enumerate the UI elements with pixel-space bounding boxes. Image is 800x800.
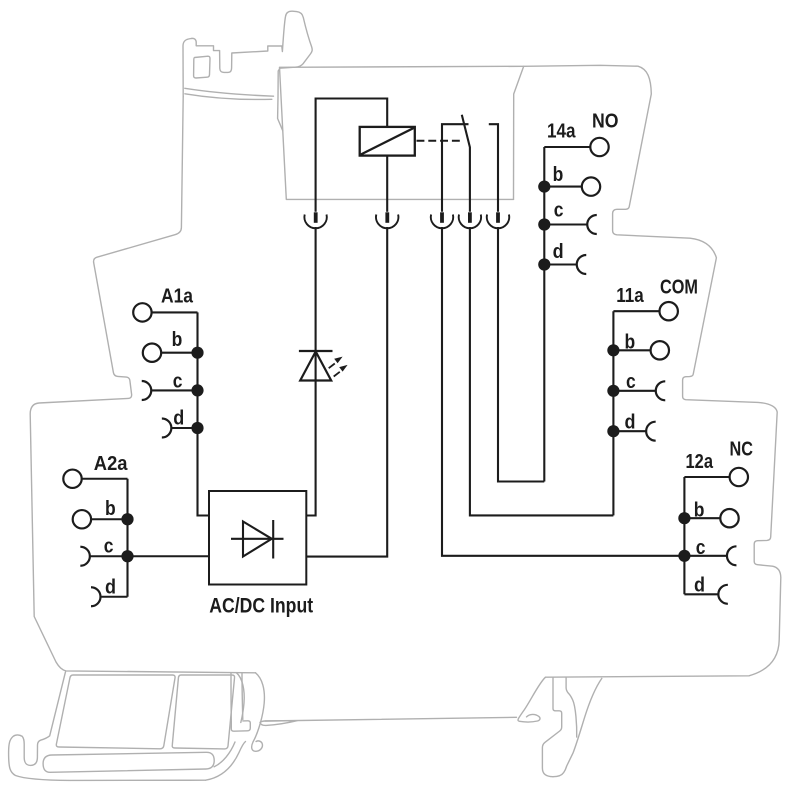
plug contact 3 <box>431 212 453 228</box>
foot bottom slot <box>43 752 214 772</box>
contact NO fixed stub <box>489 124 498 212</box>
svg-text:d: d <box>625 410 636 433</box>
contact NC fixed wire to plug 3 <box>442 124 469 212</box>
wire A2a c to rectifier <box>90 555 209 557</box>
svg-text:b: b <box>105 497 116 520</box>
plug contact 5 <box>487 212 509 228</box>
terminal 11a bus <box>612 311 614 515</box>
svg-text:c: c <box>626 370 636 393</box>
wire plug3 (NC) to 12a bus <box>442 227 684 556</box>
terminal 11a stub a <box>613 310 659 312</box>
terminal A2a bus <box>126 479 128 597</box>
rectifier diode line <box>231 538 284 540</box>
foot panel 1 <box>56 675 175 749</box>
junction 11a b <box>607 344 619 356</box>
terminal 14a stub d <box>544 263 576 265</box>
svg-text:d: d <box>105 576 116 599</box>
rectifier diode cathode bar <box>272 520 274 559</box>
svg-text:NC: NC <box>730 438 754 461</box>
foot right band inner <box>237 673 245 723</box>
foot panel 2 <box>172 675 234 749</box>
terminal A1a circle a <box>133 303 151 321</box>
terminal 12a circle a (NC) <box>730 468 748 486</box>
DIN clip spring arcs <box>185 88 274 99</box>
housing top box <box>280 66 524 199</box>
terminal 12a stub a <box>684 476 729 478</box>
terminal 14a stub c <box>544 223 587 225</box>
terminal 11a circle b <box>651 341 669 359</box>
svg-text:d: d <box>694 573 705 596</box>
terminal A1a stub d <box>171 427 198 429</box>
terminal 14a circle b <box>582 177 600 195</box>
svg-text:b: b <box>694 498 705 521</box>
svg-text:b: b <box>172 328 183 351</box>
terminal 14a bus <box>543 147 545 482</box>
dashed actuation link <box>417 140 464 142</box>
contact blade (movable) <box>462 115 470 212</box>
svg-text:AC/DC Input: AC/DC Input <box>209 594 313 617</box>
svg-text:A2a: A2a <box>94 452 128 475</box>
junction 11a c <box>607 385 619 397</box>
wire plug5 (NO) to 14a bus <box>498 227 544 482</box>
junction 12a b <box>678 512 690 524</box>
black circuit <box>63 99 748 607</box>
right clip center piece <box>542 678 561 777</box>
wire coil bottom to plug 2 <box>386 156 388 212</box>
svg-text:c: c <box>696 536 706 559</box>
svg-text:14a: 14a <box>547 120 576 143</box>
terminal 12a arc c <box>727 546 736 565</box>
terminal 14a arc d <box>577 255 587 274</box>
terminal A2a stub b <box>91 518 127 520</box>
DIN rail end pennant <box>260 721 297 726</box>
foot bottom band sweep <box>206 742 246 781</box>
plug contact 1 <box>304 212 326 228</box>
terminal A1a circle b <box>143 344 161 362</box>
rectifier box <box>209 491 306 585</box>
relay coil diagonal <box>361 128 414 155</box>
terminal 11a stub d <box>613 430 646 432</box>
junction 14a d <box>538 258 550 270</box>
DIN clip body <box>183 11 312 131</box>
wire plug2 down to rectifier <box>306 227 387 557</box>
wire coil top loop to plug 1 <box>316 99 388 212</box>
terminal 14a stub a <box>544 146 590 148</box>
junction A2a b <box>121 513 133 525</box>
terminal A2a circle a <box>63 470 81 488</box>
terminal 12a arc d <box>718 585 728 604</box>
right clip left lobe <box>518 677 546 722</box>
junction 12a c <box>678 550 690 562</box>
junction A1a c <box>191 384 203 396</box>
svg-text:b: b <box>553 163 564 186</box>
foot bottom and left hook <box>9 672 206 781</box>
plug contact 4 <box>459 212 481 228</box>
junction 14a c <box>538 218 550 230</box>
terminal A1a stub b <box>161 352 197 354</box>
terminal A1a arc d <box>162 419 172 438</box>
terminal 11a circle a (COM) <box>660 302 678 320</box>
wire plug1/LED down to rectifier <box>306 227 315 516</box>
LED light arrow 1 <box>329 357 343 369</box>
junction A1a b <box>191 347 203 359</box>
svg-text:d: d <box>173 406 184 429</box>
right clip bottom and right edge <box>553 678 602 776</box>
svg-text:b: b <box>625 331 636 354</box>
svg-text:COM: COM <box>660 276 698 299</box>
svg-text:c: c <box>173 369 183 392</box>
rectifier diode triangle <box>243 522 272 557</box>
wire plug4 (COM) to 11a bus <box>470 227 614 515</box>
terminal A2a stub d <box>101 596 128 598</box>
terminal A1a stub c <box>151 389 197 391</box>
terminal 14a circle a (NO) <box>590 138 608 156</box>
terminal 12a stub b <box>684 517 720 519</box>
terminal 11a arc d <box>646 422 656 441</box>
LED light arrow 2 <box>334 365 348 377</box>
terminal 12a circle b <box>720 509 738 527</box>
DIN rail line <box>265 717 517 721</box>
svg-text:c: c <box>554 198 564 221</box>
junction A1a d <box>191 422 203 434</box>
DIN clip inner window <box>194 56 210 78</box>
terminal 12a stub c <box>684 555 726 557</box>
LED triangle <box>300 352 331 381</box>
terminal 11a stub b <box>613 349 650 351</box>
terminal 12a bus <box>683 477 685 594</box>
terminal 14a arc c <box>587 215 597 234</box>
junction 14a b <box>538 181 550 193</box>
terminal 11a arc c <box>656 381 666 400</box>
svg-text:11a: 11a <box>616 284 644 307</box>
bottom foot right band outer <box>252 673 265 752</box>
svg-text:12a: 12a <box>686 450 714 473</box>
svg-text:A1a: A1a <box>161 284 194 307</box>
terminal 11a stub c <box>613 390 655 392</box>
right clip inner wedge <box>566 678 577 738</box>
terminal A2a circle b <box>73 510 91 528</box>
plug contact 2 <box>376 212 398 228</box>
svg-text:c: c <box>104 535 114 558</box>
LED cathode bar <box>299 350 333 352</box>
terminal A1a arc c <box>142 381 152 400</box>
terminal A1a bus <box>198 312 210 515</box>
terminal A2a arc c <box>80 547 90 566</box>
terminal 12a stub d <box>684 593 718 595</box>
foot right inner wall <box>231 673 243 722</box>
relay coil K1 <box>360 127 415 156</box>
terminal A2a stub a <box>82 478 128 480</box>
terminal A1a stub a <box>152 311 198 313</box>
terminal 14a stub b <box>544 186 582 188</box>
foot right step <box>231 721 250 731</box>
svg-text:NO: NO <box>592 109 619 132</box>
svg-text:d: d <box>553 240 564 263</box>
housing main profile <box>30 65 781 677</box>
terminal A2a arc d <box>91 587 101 606</box>
junction 11a d <box>607 425 619 437</box>
junction A2a c <box>121 550 133 562</box>
